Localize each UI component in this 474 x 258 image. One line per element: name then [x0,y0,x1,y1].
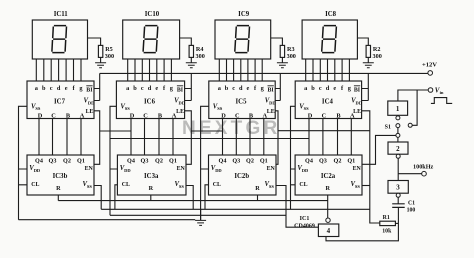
svg-text:e: e [155,85,158,92]
wire R3 to ground [281,57,283,62]
terminal Vin [428,88,433,93]
svg-text:IC3b: IC3b [53,173,68,180]
switch S1 throw A contact [396,124,400,128]
switch S1 blade [397,128,399,134]
svg-text:IC8: IC8 [325,11,337,18]
display IC10 [123,20,180,59]
wire IC2b EN cascade to IC2a Q4 and timing [278,130,370,132]
svg-text:3: 3 [396,184,400,192]
svg-text:SS: SS [269,184,275,189]
wire IC7 VSS / IC3b VDD,CL down [19,106,28,219]
svg-text:IC11: IC11 [54,11,69,18]
svg-text:4: 4 [327,227,331,235]
wires IC2a Q4-Q1 to IC4 D-A [309,119,351,156]
wire IC9 common to R3 [271,38,283,45]
svg-text:R: R [325,185,330,192]
svg-text:EN: EN [85,166,94,172]
wire IC10 common to R4 [180,38,192,45]
resistor R5 [98,45,102,57]
svg-text:Q3: Q3 [49,158,57,165]
terminal +12V [428,71,433,76]
svg-text:Q1: Q1 [347,158,355,165]
wires IC10 segments a-g to IC6 [128,59,172,81]
svg-text:LE: LE [176,109,184,115]
svg-text:CL: CL [299,182,307,188]
decoder IC4 [295,81,361,119]
svg-text:BI: BI [86,87,93,93]
svg-text:EN: EN [177,166,186,172]
ground below R2 [363,63,374,68]
wire IC3a CL down [115,185,118,210]
wire IC5 BI,VDD to +12V rail [275,73,280,100]
wire IC7 LE to IC3b EN [94,111,100,165]
svg-text:R: R [56,185,61,192]
svg-text:BI: BI [177,87,184,93]
decoder IC7 [27,81,94,119]
svg-text:e: e [333,85,336,92]
svg-text:c: c [232,85,235,92]
svg-text:100kHz: 100kHz [413,163,434,170]
svg-text:DD: DD [215,168,222,173]
svg-text:Q3: Q3 [232,158,240,165]
svg-text:IC4: IC4 [322,99,334,106]
svg-text:300: 300 [105,53,114,60]
wire gate 3 to C1 [397,197,399,203]
wires IC2b Q4-Q1 to IC5 D-A [223,119,264,156]
svg-text:300: 300 [196,53,205,60]
svg-text:b: b [133,85,137,92]
svg-text:SS: SS [217,106,223,111]
svg-text:Q4: Q4 [219,158,227,165]
svg-text:DD: DD [302,168,309,173]
svg-text:R: R [255,185,260,192]
svg-text:c: c [50,85,53,92]
svg-text:CD4069: CD4069 [294,223,315,229]
gate 3 (inverter) [388,181,408,194]
wire R1 right to C1 node [395,222,398,224]
svg-text:EN: EN [353,166,362,172]
svg-text:R1: R1 [383,215,390,221]
svg-text:Q2: Q2 [63,158,71,165]
wire VSS bus across columns [110,138,309,140]
display IC9 [215,20,271,59]
resistor R1 [380,221,396,225]
wire IC3b VSS down [94,186,101,210]
wire IC11 common to R5 [88,38,101,45]
svg-text:SS: SS [179,184,185,189]
wire R2 to ground [367,57,369,62]
wire IC6 LE to IC3a EN [185,111,192,165]
svg-text:IC5: IC5 [236,99,248,106]
switch S1 common contact [396,133,400,137]
display IC8 [302,20,357,59]
svg-text:SS: SS [304,106,310,111]
wire IC6 VSS down / IC3a VDD stub [110,106,117,215]
bubble gate 2 output [396,154,400,158]
svg-text:IC6: IC6 [144,99,156,106]
wire IC3a EN to IC2b Q4 (cascade) [191,130,222,132]
resistor R3 [280,45,284,57]
resistor R4 [189,45,193,57]
svg-text:Q4: Q4 [35,158,43,165]
wire IC4 LE down to R1 [362,111,380,223]
wire Vin to gate 1 and S1 throw [398,90,428,125]
svg-text:Q1: Q1 [77,158,85,165]
svg-text:DD: DD [34,168,41,173]
wires IC8 segments a-g to IC4 [306,59,350,81]
counter IC2a [295,155,362,195]
wires IC9 segments a-g to IC5 [219,59,262,81]
svg-text:R: R [149,185,154,192]
bubble gate 1 output [396,116,400,120]
wire R reset bus [58,200,327,202]
wire IC3a VSS down [186,186,193,210]
svg-text:IC2b: IC2b [234,173,249,180]
counter IC3b [27,155,94,195]
ground below R3 [277,63,288,68]
svg-text:b: b [225,85,229,92]
wires IC3a Q4-Q1 to IC6 D-A [131,119,173,156]
display IC11 [32,20,87,59]
svg-text:e: e [247,85,250,92]
wires IC3b Q4-Q1 to IC7 D-A [39,119,81,156]
wire R4 to ground [190,57,192,62]
gate 4 (inverter) [318,224,338,237]
wires IC11 segments a-g to IC7 [36,59,81,81]
svg-text:BI: BI [354,87,361,93]
svg-text:2: 2 [396,145,400,153]
svg-text:Q1: Q1 [169,158,177,165]
svg-text:300: 300 [287,53,296,60]
wire gate 2 to gate 3 and 100kHz tap [398,158,422,180]
wire +12V rail [100,72,428,74]
wire IC4 BI,VDD to +12V rail [362,73,369,100]
switch S1 throw B contact [408,123,412,127]
wire ground bus 3 [110,214,286,216]
svg-text:d: d [148,85,152,92]
gate 2 (inverter) [388,142,408,154]
digit 8 of IC8 [322,26,337,53]
svg-text:b: b [311,85,315,92]
svg-text:IC7: IC7 [54,99,66,106]
svg-text:CL: CL [122,182,130,188]
svg-text:d: d [239,85,243,92]
svg-text:BI: BI [267,87,274,93]
wire C1 to gate 4 feedback loop [326,207,398,240]
wire IC2b VSS down to gate 4 input [276,186,318,228]
decoder IC6 [116,81,184,119]
svg-text:SS: SS [87,184,93,189]
svg-text:Q1: Q1 [260,158,268,165]
wire IC6 BI,VDD to +12V rail [185,73,192,100]
svg-text:IC1: IC1 [300,216,310,222]
terminal 100kHz [422,171,427,176]
svg-text:Q2: Q2 [155,158,163,165]
svg-text:SS: SS [355,184,361,189]
wire IC2a R pin to gate 4 bubble [327,195,329,218]
svg-text:c: c [141,85,144,92]
svg-text:Q2: Q2 [334,158,342,165]
svg-text:in: in [440,90,444,95]
svg-text:SS: SS [125,106,131,111]
svg-text:+12V: +12V [422,62,437,69]
svg-text:NEXTGR: NEXTGR [182,118,280,139]
wire ground bus 2 [101,208,370,210]
ground below R5 [95,63,106,68]
wire IC8 common to R2 [357,38,368,45]
svg-text:LE: LE [267,109,275,115]
wire IC3b EN to IC3a Q4 (cascade) [100,130,131,132]
wires R pins to reset bus [58,195,257,201]
icon input pulse waveform [431,98,452,104]
svg-text:SS: SS [35,106,41,111]
svg-text:1: 1 [396,105,400,113]
wire bottom left ground run [19,219,196,221]
capacitor C1 [392,204,405,208]
digit 8 of IC11 [52,26,67,53]
svg-text:c: c [319,85,322,92]
wire IC7 BI,VDD to +12V rail [94,73,100,100]
resistor R2 [366,45,370,57]
digit 8 of IC9 [235,26,250,53]
ground below R4 [186,63,197,68]
wire IC5 VSS down to ground / IC2b VDD stub [201,106,209,220]
svg-text:EN: EN [267,166,276,172]
wire IC5 LE to IC2b EN [275,111,278,165]
svg-text:e: e [65,85,68,92]
digit 8 of IC10 [143,26,158,53]
svg-text:Q4: Q4 [127,158,135,165]
ground bottom middle [195,220,206,225]
decoder IC5 [209,81,275,119]
wire IC2a EN to S1 common [362,135,396,164]
bubble gate 3 output [396,193,400,197]
gate 1 (inverter) [388,101,408,115]
svg-text:Q2: Q2 [246,158,254,165]
wire IC2b CL down [205,185,209,210]
svg-text:CL: CL [31,182,39,188]
svg-text:IC9: IC9 [238,11,250,18]
svg-text:Q3: Q3 [141,158,149,165]
wire IC4 VSS down / IC2a VDD,CL stubs [291,106,296,209]
svg-text:IC2a: IC2a [321,173,336,180]
wire S1 to gate 2 [397,137,399,142]
svg-text:LE: LE [86,109,94,115]
svg-text:300: 300 [373,53,382,60]
bubble gate 4 output [326,218,330,222]
svg-text:Q3: Q3 [319,158,327,165]
counter IC2b [209,155,277,195]
svg-text:CL: CL [213,182,221,188]
svg-text:100: 100 [407,207,416,213]
counter IC3a [117,155,186,195]
wire R5 to ground [100,57,102,62]
svg-text:S1: S1 [385,124,391,130]
svg-text:DD: DD [124,168,131,173]
svg-text:d: d [326,85,330,92]
svg-text:10k: 10k [382,229,392,235]
svg-text:IC10: IC10 [145,11,160,18]
svg-text:b: b [42,85,46,92]
svg-text:IC3a: IC3a [144,173,159,180]
wire IC2a VSS to vertical [362,185,370,187]
svg-text:C1: C1 [408,201,415,207]
svg-text:Q4: Q4 [305,158,313,165]
svg-text:d: d [57,85,61,92]
wire ground stub mid [200,209,202,220]
